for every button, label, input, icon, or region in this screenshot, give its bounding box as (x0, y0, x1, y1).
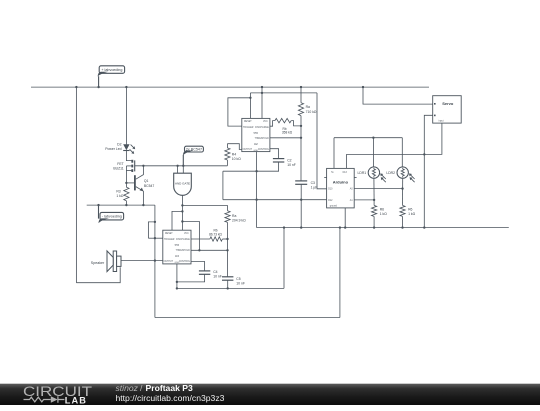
wire U3 threshold tie branch (182, 222, 199, 251)
junction AND input 2 / flag (182, 165, 184, 167)
junction bottom bus riser (339, 226, 341, 228)
wire servo input riser (424, 123, 442, 154)
svg-text:1 kΩ: 1 kΩ (380, 212, 388, 216)
wire U3 threshold line (191, 249, 228, 251)
svg-text:BC547: BC547 (144, 184, 154, 188)
junction -labvoeding flag (97, 204, 99, 206)
svg-text:LDR2: LDR2 (386, 171, 395, 175)
wire long gnd line to arduino D12 (223, 199, 327, 201)
junction threshold Ra branch (300, 137, 302, 139)
wire 5v drop to arduino (333, 138, 335, 169)
LED D2 Power Led (123, 144, 135, 154)
transistor FET BUZ11 (126, 160, 134, 183)
junction Q1 collector on gate line (142, 165, 144, 167)
wire AND output (181, 195, 183, 205)
transistor Q1 BC547 (126, 166, 143, 205)
junction R3 bottom (125, 204, 127, 206)
svg-text:86.73 kΩ: 86.73 kΩ (209, 232, 222, 236)
photoresistor LDR2 (397, 167, 415, 182)
svg-text:CONTROL: CONTROL (258, 149, 270, 151)
svg-text:THRESHOLD: THRESHOLD (176, 250, 191, 252)
svg-text:U2: U2 (254, 142, 258, 146)
svg-text:555: 555 (175, 243, 180, 247)
wire supply spur y92.9 (250, 92, 317, 94)
svg-text:Servo: Servo (442, 101, 454, 106)
junction Ra Rb node (226, 238, 228, 240)
junction threshold tie top (181, 220, 183, 222)
resistor Ra2 710 kOhm (298, 87, 303, 181)
capacitor C2 10 nF (223, 159, 284, 172)
svg-text:R6: R6 (408, 208, 412, 212)
svg-text:D10: D10 (328, 189, 333, 191)
svg-text:Ra: Ra (306, 105, 310, 109)
svg-text:input: input (439, 120, 444, 123)
wire AND gate input 2 (182, 166, 184, 173)
svg-text:10 nF: 10 nF (287, 163, 296, 167)
wire Ra to Rb node (227, 222, 229, 239)
op-amp U2 555 timer (242, 118, 270, 152)
capacitor C5 10 nF (222, 277, 233, 289)
wire LED branch from rail (125, 87, 127, 144)
svg-text:RESET: RESET (244, 121, 252, 123)
wire U2 control to C2 (270, 149, 279, 159)
capacitor C4 10 nF (177, 271, 210, 282)
junction C2 line gnd (255, 170, 257, 172)
svg-text:Power Led: Power Led (105, 147, 121, 151)
svg-text:C5: C5 (236, 277, 240, 281)
wire LDR2 top lead (401, 138, 403, 167)
junction gnd riser U3 bus (283, 226, 285, 228)
junction servo line on rail (362, 86, 364, 88)
junction AND output node (181, 204, 183, 206)
svg-text:FET: FET (117, 162, 123, 166)
resistor R7 1 kOhm (400, 205, 405, 227)
wire servo pin2 to ground (424, 115, 432, 227)
svg-text:ground: ground (330, 205, 338, 208)
svg-text:C2: C2 (287, 159, 291, 163)
junction speaker line (154, 259, 156, 261)
svg-text:10 kΩ: 10 kΩ (232, 157, 241, 161)
op-amp U3 555 timer (163, 230, 191, 264)
junction C5 on gnd bus (227, 287, 229, 289)
wire AND output to U3 supply (181, 205, 183, 230)
junction U2 vcc on rail (261, 86, 263, 88)
svg-text:Arduino: Arduino (333, 180, 349, 185)
capacitor C3 1 uF (295, 181, 307, 200)
junction +labvoeding flag on top rail (97, 86, 99, 88)
junction R7 bus (401, 226, 403, 228)
svg-text:U3: U3 (175, 254, 179, 258)
svg-text:BUZ11: BUZ11 (113, 167, 123, 171)
wire rail to servo line (363, 87, 433, 104)
junction A0 LDR2 node (401, 187, 403, 189)
svg-text:DISCHARGE: DISCHARGE (176, 238, 190, 241)
wire node to C5 (227, 239, 229, 277)
svg-text:VCC: VCC (184, 233, 189, 235)
footer credit text (116, 383, 225, 403)
wire U3 reset loop (172, 211, 182, 230)
junction arduino ground bus (344, 226, 346, 228)
wire 5v line (334, 137, 402, 139)
junction U3 gnd bus (176, 287, 178, 289)
svg-text:OUTPUT: OUTPUT (243, 149, 253, 151)
svg-text:TRIGGER: TRIGGER (243, 127, 254, 129)
svg-text:D12: D12 (328, 200, 333, 202)
flag -labvoeding (98, 205, 123, 223)
junction R6 bus (373, 226, 375, 228)
logo CIRCUIT LAB (23, 384, 92, 406)
svg-text:CONTROL: CONTROL (179, 261, 191, 263)
wire speaker to U3 output (121, 260, 163, 262)
svg-text:C3: C3 (311, 181, 315, 185)
wire emitter/R3 bottom line (87, 204, 155, 206)
wire U2 threshold line (270, 137, 301, 139)
junction C4 into gnd (176, 281, 178, 283)
svg-text:Proftaak P3: Proftaak P3 (146, 384, 194, 393)
svg-text:R4: R4 (232, 152, 236, 156)
wire speaker bottom return (76, 267, 120, 282)
svg-text:2x BC547: 2x BC547 (186, 148, 202, 152)
svg-text:C4: C4 (213, 270, 217, 274)
wire A0 line to LDR2 (354, 188, 402, 190)
svg-text:TRIGGER: TRIGGER (164, 239, 175, 241)
svg-text:LDR1: LDR1 (358, 171, 367, 175)
svg-text:- labvoeding: - labvoeding (102, 215, 122, 219)
chip Servo (433, 96, 462, 123)
junction trigger line crossing (154, 237, 156, 239)
svg-text:358 kΩ: 358 kΩ (282, 131, 293, 135)
junction U2 gnd on line (255, 199, 257, 201)
wire main ground bus (257, 227, 509, 229)
chip Arduino (324, 168, 356, 208)
junction threshold tie bottom (198, 249, 200, 251)
wire trigger loop U3 (148, 222, 155, 238)
junction left rail / top rail (75, 86, 77, 88)
junction spur vcc (261, 92, 263, 94)
gate U4 AND (174, 173, 192, 195)
wire left vertical to bottom bus (154, 205, 156, 317)
wire LED cathode to FET drain (126, 150, 132, 160)
wire U2 reset pin (249, 93, 251, 119)
junction servo input node (423, 153, 425, 155)
wire U3 trigger line (148, 237, 162, 239)
flag +labvoeding (98, 66, 125, 87)
wire D13 to servo input line (346, 153, 424, 155)
wire U3 control to C4 (191, 262, 205, 271)
wire riser bottom bus to ground bus (339, 228, 341, 318)
junction Rb into Ra branch (300, 125, 302, 127)
speaker SPK1 (107, 251, 121, 272)
wire U2 gnd down (256, 152, 258, 228)
wire D13 drop (345, 154, 347, 168)
wire LDR2 bottom lead (402, 178, 404, 205)
svg-text:OUTPUT: OUTPUT (164, 261, 174, 263)
svg-text:AND GATE: AND GATE (175, 181, 190, 185)
wire gnd bus riser (283, 228, 285, 289)
wire U2 output to R4 (227, 144, 241, 150)
resistor R4 10 kOhm (225, 144, 230, 166)
svg-text:1 µF: 1 µF (311, 185, 318, 189)
wire C3 branch down to ground bus (300, 200, 302, 228)
wire arduino ground pin (344, 208, 346, 228)
junction LDR1 top branch (372, 137, 374, 139)
resistor Rb2 358 kOhm (270, 118, 301, 126)
wire spur down to arduino D10 (317, 93, 327, 189)
junction Q1 emitter bottom (142, 204, 144, 206)
resistor R6 1 kOhm (372, 205, 377, 227)
svg-text:DISCHARGE: DISCHARGE (255, 126, 269, 129)
svg-text:Q1: Q1 (144, 179, 149, 183)
wire reset-trigger loop (228, 98, 251, 126)
junction servo gnd bus (423, 226, 425, 228)
svg-text:/: / (140, 384, 143, 393)
svg-text:204.9 kΩ: 204.9 kΩ (232, 218, 246, 222)
svg-text:Speaker: Speaker (91, 261, 105, 265)
junction C3 branch bus (300, 226, 302, 228)
svg-text:LAB: LAB (65, 395, 87, 405)
junction trigger loop top (154, 221, 156, 223)
wire LDR1 top lead (372, 138, 374, 167)
junction AND input 1 (176, 165, 178, 167)
flag 2x BC547 (183, 146, 204, 166)
junction threshold node (226, 249, 228, 251)
wire U3 gnd down (176, 264, 178, 289)
svg-text:10 nF: 10 nF (213, 275, 222, 279)
wire A1 line to LDR1 (354, 199, 374, 201)
wire U3 ground bus (177, 287, 284, 289)
wire bottom bus (155, 317, 340, 319)
svg-text:1 kΩ: 1 kΩ (116, 194, 124, 198)
svg-text:10 nF: 10 nF (236, 281, 245, 285)
junction Ra on rail (300, 86, 302, 88)
svg-text:VCC: VCC (263, 121, 268, 123)
wire corner link to gnd line (222, 171, 224, 200)
svg-text:R6: R6 (380, 208, 384, 212)
resistor R3 1 kOhm (124, 183, 129, 205)
resistor Rb 86.73 kOhm (191, 237, 228, 241)
junction LED branch on top rail (125, 86, 127, 88)
svg-text:R3: R3 (116, 189, 120, 193)
svg-text:RESET: RESET (165, 233, 173, 235)
svg-text:+ labvoeding: + labvoeding (101, 68, 122, 72)
svg-text:stinoz: stinoz (116, 384, 139, 393)
wire U2 VCC from rail (261, 87, 263, 118)
junction reset trigger tie (249, 97, 251, 99)
svg-text:555: 555 (254, 131, 259, 135)
wire AND gate input 1 (177, 166, 179, 173)
junction C3 branch on line (300, 199, 302, 201)
photoresistor LDR1 (368, 167, 386, 182)
svg-text:1 kΩ: 1 kΩ (408, 212, 416, 216)
wire left rail vertical (75, 87, 77, 283)
resistor Ra 204.9 kOhm (225, 205, 230, 222)
junction A1 LDR1 node (373, 199, 375, 201)
svg-text:THRESHOLD: THRESHOLD (255, 138, 270, 140)
wire top +labvoeding rail (31, 86, 429, 88)
wire FET gate line to AND gate and R4 (135, 165, 228, 167)
svg-text:http://circuitlab.com/cn3p3z3: http://circuitlab.com/cn3p3z3 (116, 393, 225, 403)
wire LDR1 bottom lead (373, 178, 375, 200)
svg-text:710 kΩ: 710 kΩ (306, 110, 317, 114)
junction U3 reset branch (181, 210, 183, 212)
wire AND output to Ra (182, 204, 227, 206)
junction FET source / Q1 base / R3 (125, 182, 127, 184)
svg-text:D13: D13 (343, 172, 348, 174)
